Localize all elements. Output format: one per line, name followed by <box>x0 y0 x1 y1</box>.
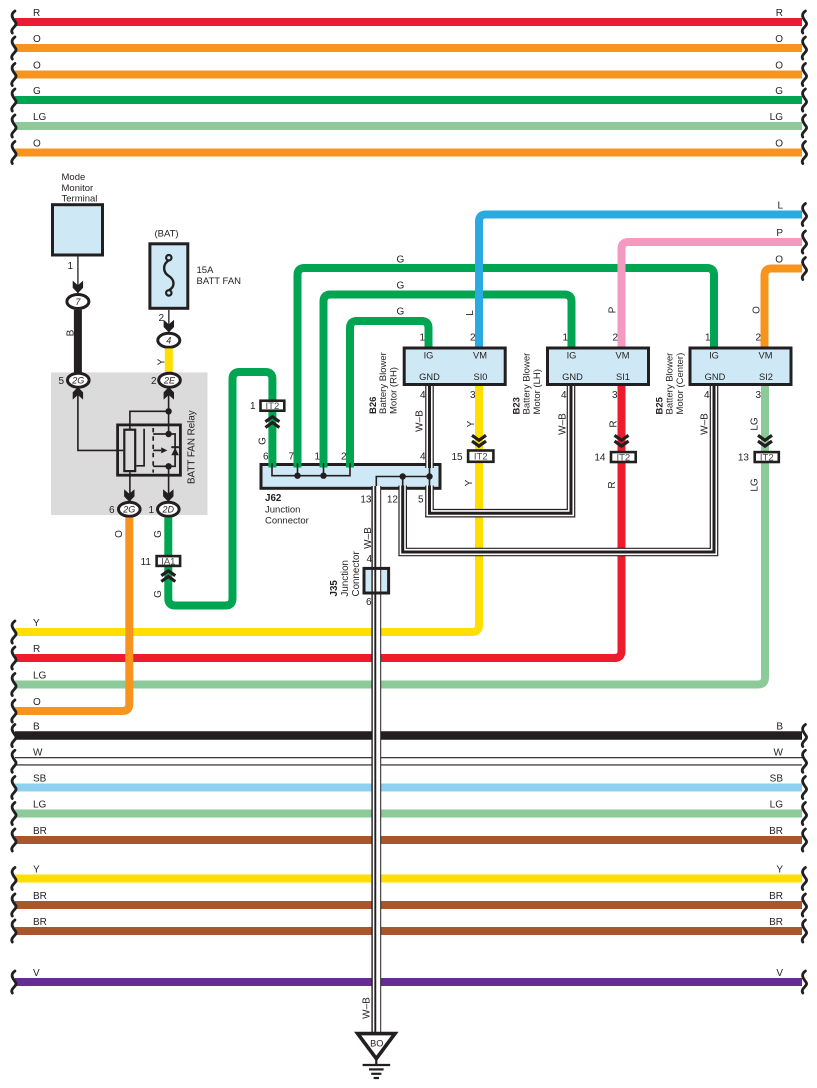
svg-text:6: 6 <box>263 452 269 463</box>
svg-text:SB: SB <box>33 774 47 785</box>
svg-text:LG: LG <box>770 112 784 123</box>
svg-text:B: B <box>776 722 783 733</box>
label 4 (J62 pin 4) <box>420 452 426 463</box>
transistor drain line <box>153 431 172 437</box>
wire G (top band, y=100) <box>12 86 807 111</box>
svg-text:W–B: W–B <box>361 997 372 1019</box>
wire G from J62 pin 2 to B26 IG <box>350 321 429 468</box>
label G (below IT2-1) <box>258 437 269 445</box>
svg-text:W–B: W–B <box>558 413 569 435</box>
wire LG (top band, y=126) <box>12 112 807 137</box>
label W-B (B25 GND) <box>700 413 711 435</box>
svg-text:SI1: SI1 <box>616 372 630 382</box>
Mode Monitor Terminal box <box>53 205 103 255</box>
connector IA1 pin 11 <box>141 556 180 568</box>
wire G from J62 pin 7 to B25 IG <box>298 268 715 468</box>
svg-text:G: G <box>397 307 405 318</box>
wire L (blue) to B26 VM <box>479 201 807 348</box>
svg-text:2G: 2G <box>71 376 84 386</box>
svg-text:Y: Y <box>466 420 477 427</box>
svg-text:1: 1 <box>148 505 154 516</box>
svg-text:IT2: IT2 <box>474 452 488 463</box>
svg-text:BR: BR <box>33 917 47 928</box>
svg-text:R: R <box>776 8 783 19</box>
ground hatch <box>363 1065 391 1078</box>
svg-text:V: V <box>776 968 783 979</box>
wire BR (bottom band, y=840) <box>12 826 807 851</box>
svg-text:IG: IG <box>424 351 434 361</box>
svg-text:Junction: Junction <box>340 560 351 597</box>
svg-text:5: 5 <box>418 495 424 506</box>
terminal oval 7 <box>67 295 89 309</box>
terminal oval 2E (pin 2) <box>159 373 181 399</box>
svg-text:2D: 2D <box>162 505 175 515</box>
wire G (green) relay 2D(1) via IA1 to J62 pin 6 <box>168 372 272 606</box>
svg-text:Y: Y <box>776 865 783 876</box>
svg-text:15: 15 <box>451 452 463 463</box>
fuse rating label <box>197 265 242 287</box>
chevron into IT2 (14) <box>615 435 629 446</box>
svg-text:IG: IG <box>709 351 719 361</box>
svg-text:Monitor: Monitor <box>62 183 94 194</box>
connector J62 box <box>261 465 440 489</box>
wire O (top band, y=152.5) <box>12 139 807 164</box>
wire BR (bottom band, y=931) <box>12 917 807 942</box>
body diode branch <box>169 434 179 466</box>
wire B (bottom band, y=735.5) <box>12 722 807 747</box>
svg-text:G: G <box>33 86 41 97</box>
terminal oval 4 <box>158 333 180 347</box>
svg-text:2: 2 <box>341 452 347 463</box>
svg-text:IG: IG <box>567 351 577 361</box>
wire LG (bottom band, y=813.5) <box>12 800 807 825</box>
svg-text:G: G <box>775 86 783 97</box>
svg-text:LG: LG <box>770 800 784 811</box>
connector IT2 pin 15 <box>451 451 493 464</box>
BATT FAN Relay block (gray box) <box>51 372 208 515</box>
svg-text:5: 5 <box>58 376 64 387</box>
wire label O <box>752 306 763 314</box>
relay coil top branch <box>130 411 169 429</box>
svg-text:BATT FAN Relay: BATT FAN Relay <box>187 410 198 484</box>
svg-text:4: 4 <box>166 336 171 346</box>
B25 name label <box>654 353 686 415</box>
svg-text:G: G <box>153 590 164 598</box>
J62 internal bus (right) <box>376 463 432 490</box>
svg-text:Y: Y <box>464 479 475 486</box>
svg-text:Mode: Mode <box>62 172 86 183</box>
terminal 5 label <box>58 376 64 387</box>
svg-text:BO: BO <box>370 1039 383 1049</box>
svg-text:J62: J62 <box>265 493 282 504</box>
svg-text:15A: 15A <box>197 265 215 276</box>
svg-text:W: W <box>774 747 784 758</box>
svg-text:2: 2 <box>158 313 164 324</box>
label O (relay output) <box>114 530 125 538</box>
wire coil to 2G(6) <box>129 472 131 503</box>
svg-text:P: P <box>776 228 783 239</box>
label R (upper) <box>609 420 620 427</box>
wire W-B main (J62 pin 13 to ground) <box>375 486 376 1034</box>
svg-text:O: O <box>752 306 763 314</box>
label LG (lower) <box>750 478 761 492</box>
connector IT2 pin 14 <box>594 452 635 463</box>
svg-text:V: V <box>33 968 40 979</box>
svg-text:O: O <box>33 34 41 45</box>
svg-text:Connector: Connector <box>265 516 309 527</box>
svg-text:2: 2 <box>151 376 157 387</box>
component B23 Battery Blower Motor (LH) <box>548 333 649 385</box>
svg-text:VM: VM <box>473 351 487 361</box>
svg-text:7: 7 <box>288 452 294 463</box>
svg-text:O: O <box>775 61 783 72</box>
svg-text:SI2: SI2 <box>759 372 773 382</box>
label 4 (J35 top) <box>366 554 372 565</box>
svg-text:9: 9 <box>366 595 372 606</box>
svg-text:W–B: W–B <box>414 410 425 432</box>
svg-text:1: 1 <box>705 333 711 344</box>
svg-text:BR: BR <box>33 891 47 902</box>
transistor gate arrow <box>153 447 167 453</box>
svg-text:R: R <box>607 481 618 488</box>
svg-text:R: R <box>609 420 620 427</box>
svg-text:LG: LG <box>33 671 47 682</box>
svg-text:B: B <box>33 722 40 733</box>
svg-text:2: 2 <box>470 333 476 344</box>
svg-text:Motor (Center): Motor (Center) <box>675 353 686 415</box>
wire R (SI1) B23 to left edge <box>12 386 622 669</box>
wire 2E(2) into relay <box>168 386 170 434</box>
svg-text:3: 3 <box>755 390 761 401</box>
wire W-B from J62 pin 5 to B23 GND <box>430 386 572 513</box>
pin 1 label <box>67 261 73 272</box>
Mode Monitor Terminal label <box>62 172 98 205</box>
svg-text:3: 3 <box>612 390 618 401</box>
wire label P <box>608 306 619 313</box>
fuse label (BAT) <box>154 229 178 240</box>
svg-text:W: W <box>33 747 43 758</box>
svg-text:IT2: IT2 <box>266 401 280 412</box>
wire source to 2D(1) <box>168 466 170 503</box>
svg-text:R: R <box>33 644 40 655</box>
terminal oval 2D (pin 1) <box>158 489 180 516</box>
svg-text:BR: BR <box>769 917 783 928</box>
label W-B (B23 GND) <box>558 413 569 435</box>
wire Y (yellow) fuse to relay <box>165 348 173 373</box>
wire label Y <box>156 358 167 365</box>
wire BR (bottom band, y=905) <box>12 891 807 916</box>
svg-text:1: 1 <box>562 333 568 344</box>
wire O (orange) relay 2G(6) to left edge <box>12 518 130 722</box>
svg-text:4: 4 <box>420 452 426 463</box>
terminal 6 label <box>109 505 115 516</box>
chevron into IT2 (13) <box>758 435 772 446</box>
svg-text:Connector: Connector <box>351 551 362 597</box>
J62 pin 6 label <box>263 452 269 463</box>
transistor source line <box>153 463 172 469</box>
svg-text:Y: Y <box>156 358 167 365</box>
B26 name label <box>368 352 400 414</box>
svg-text:O: O <box>775 34 783 45</box>
connector IT2 pin 1 <box>250 401 284 412</box>
svg-text:4: 4 <box>704 390 710 401</box>
svg-text:IA1: IA1 <box>161 556 175 567</box>
J62 pin 12 label <box>387 495 399 506</box>
svg-text:O: O <box>33 61 41 72</box>
chevron into IT2 (1) <box>265 417 279 428</box>
svg-text:R: R <box>33 8 40 19</box>
relay armature line <box>136 429 144 466</box>
svg-text:13: 13 <box>360 495 372 506</box>
wire label G (to B26) <box>397 307 405 318</box>
svg-text:1: 1 <box>67 261 73 272</box>
svg-text:LG: LG <box>750 478 761 492</box>
label 4 (B25 GND) <box>704 390 710 401</box>
svg-text:BR: BR <box>769 891 783 902</box>
wire label L <box>465 310 476 316</box>
label Y (upper) <box>466 420 477 427</box>
component B26 Battery Blower Motor (RH) <box>404 333 505 385</box>
svg-text:1: 1 <box>314 452 320 463</box>
J62 pin 2 label <box>341 452 347 463</box>
svg-text:Motor (RH): Motor (RH) <box>388 367 399 414</box>
wire from Mode Monitor Terminal pin 1 <box>77 257 79 295</box>
wire G from J62 pin 1 to B23 IG <box>324 295 572 468</box>
wire LG (SI2) B25 to left edge <box>12 386 765 696</box>
svg-text:IT2: IT2 <box>760 452 774 463</box>
J62 pin 7 label <box>288 452 294 463</box>
svg-text:O: O <box>114 530 125 538</box>
svg-text:2: 2 <box>612 333 618 344</box>
label 3 (SI2) <box>755 390 761 401</box>
svg-text:G: G <box>258 437 269 445</box>
svg-text:13: 13 <box>738 453 750 464</box>
wire O (orange) to B25 VM <box>765 255 807 348</box>
wire label G (to B23) <box>397 281 405 292</box>
label W-B (near ground) <box>361 997 372 1019</box>
J62 pin 13 label <box>360 495 372 506</box>
fuse element symbol <box>164 255 173 296</box>
wire Y (SI0) B26 to left edge <box>12 386 479 643</box>
label LG (upper) <box>750 417 761 431</box>
label W-B (pin 13 wire) <box>363 527 374 549</box>
svg-text:LG: LG <box>33 112 47 123</box>
pin 2 label <box>158 313 164 324</box>
svg-text:B: B <box>66 329 77 336</box>
label 4 (B26 GND) <box>420 390 426 401</box>
chevron into IT2 (15) <box>472 435 486 446</box>
wire R (top band, y=22) <box>12 8 807 33</box>
wire Y (bottom band, y=878.5) <box>12 865 807 890</box>
wire P (pink) to B23 VM <box>622 228 807 347</box>
svg-text:G: G <box>397 281 405 292</box>
svg-text:VM: VM <box>616 351 630 361</box>
wire 2G(5) to relay coil <box>78 386 123 450</box>
svg-text:O: O <box>775 139 783 150</box>
label G (below IA1) <box>153 590 164 598</box>
svg-text:LG: LG <box>750 417 761 431</box>
fuse 15A BATT FAN box <box>150 244 188 308</box>
svg-text:W–B: W–B <box>700 413 711 435</box>
svg-text:2E: 2E <box>163 376 176 386</box>
wire O (top band, y=48) <box>12 34 807 59</box>
connector J35 box fill <box>363 567 391 595</box>
wire label G (to B25) <box>397 255 405 266</box>
relay coil <box>124 430 135 471</box>
svg-text:P: P <box>608 306 619 313</box>
arrow into terminal 7 <box>73 281 83 294</box>
svg-text:BATT FAN: BATT FAN <box>197 276 242 287</box>
J62 pin 1 label <box>314 452 320 463</box>
label 4 (B23 GND) <box>561 390 567 401</box>
transistor gate (dashed) <box>152 428 154 473</box>
svg-text:GND: GND <box>562 372 583 382</box>
arrow into terminal 4 <box>164 320 174 333</box>
junction node (coil-drain) <box>165 408 171 414</box>
svg-text:Y: Y <box>33 618 40 629</box>
terminal 2 label <box>151 376 157 387</box>
B23 name label <box>511 353 543 415</box>
svg-text:LG: LG <box>33 800 47 811</box>
terminal oval 2G (pin 5) <box>68 373 90 399</box>
J35 name label <box>329 551 362 597</box>
wire V (bottom band, y=982) <box>12 968 807 993</box>
label R (lower) <box>607 481 618 488</box>
wire W-B from B26 GND to J62 pin 4 <box>425 386 434 468</box>
svg-text:3: 3 <box>470 390 476 401</box>
svg-text:4: 4 <box>561 390 567 401</box>
svg-text:1: 1 <box>419 333 425 344</box>
wire W (bottom band, y=761.3) <box>12 747 807 772</box>
svg-text:O: O <box>775 255 783 266</box>
terminal 1 label <box>148 505 154 516</box>
svg-text:SI0: SI0 <box>474 372 488 382</box>
svg-text:Junction: Junction <box>265 504 300 515</box>
svg-text:12: 12 <box>387 495 399 506</box>
label 9 (J35 bottom) <box>366 595 372 606</box>
svg-text:O: O <box>33 139 41 150</box>
svg-text:L: L <box>465 310 476 316</box>
svg-text:6: 6 <box>109 505 115 516</box>
label W-B (B26 GND) <box>414 410 425 432</box>
svg-text:GND: GND <box>705 372 726 382</box>
label Y (lower) <box>464 479 475 486</box>
svg-text:BR: BR <box>33 826 47 837</box>
svg-text:(BAT): (BAT) <box>154 229 178 240</box>
svg-text:14: 14 <box>594 453 606 464</box>
svg-text:J35: J35 <box>329 580 340 597</box>
connector J35 box border <box>364 568 389 593</box>
svg-text:G: G <box>153 530 164 538</box>
J62 pin 5 label <box>418 495 424 506</box>
component B25 Battery Blower Motor (Center) <box>690 333 791 385</box>
label 3 (SI1) <box>612 390 618 401</box>
J62 name label <box>265 493 309 527</box>
svg-text:VM: VM <box>759 351 773 361</box>
svg-text:Y: Y <box>33 865 40 876</box>
wire W-B from J62 pin 12 to B25 GND <box>403 386 714 552</box>
ground BO <box>358 1034 395 1065</box>
svg-text:G: G <box>397 255 405 266</box>
wire B (black, thick) <box>74 310 82 373</box>
wire from fuse pin 2 <box>168 310 170 333</box>
svg-text:IT2: IT2 <box>616 452 630 463</box>
svg-text:2G: 2G <box>122 505 135 515</box>
svg-text:Terminal: Terminal <box>62 194 98 205</box>
wire O (top band, y=74.5) <box>12 61 807 86</box>
J62 internal bus (left) <box>272 463 350 479</box>
wire label B <box>66 329 77 336</box>
svg-text:11: 11 <box>141 557 152 568</box>
svg-text:BR: BR <box>769 826 783 837</box>
svg-text:SB: SB <box>770 774 784 785</box>
svg-text:2: 2 <box>755 333 761 344</box>
connector IT2 pin 13 <box>738 452 779 463</box>
label 3 (SI0) <box>470 390 476 401</box>
svg-text:4: 4 <box>420 390 426 401</box>
chevron into IA1 <box>161 571 175 582</box>
svg-text:GND: GND <box>419 372 440 382</box>
svg-text:O: O <box>33 697 41 708</box>
relay outline <box>118 425 181 475</box>
svg-text:Motor (LH): Motor (LH) <box>532 369 543 414</box>
terminal oval 2G (pin 6) <box>119 489 141 516</box>
wire SB (bottom band, y=787.5) <box>12 774 807 799</box>
svg-text:1: 1 <box>250 401 256 412</box>
label G (above IA1) <box>153 530 164 538</box>
svg-text:L: L <box>777 201 783 212</box>
relay name label <box>187 410 198 484</box>
